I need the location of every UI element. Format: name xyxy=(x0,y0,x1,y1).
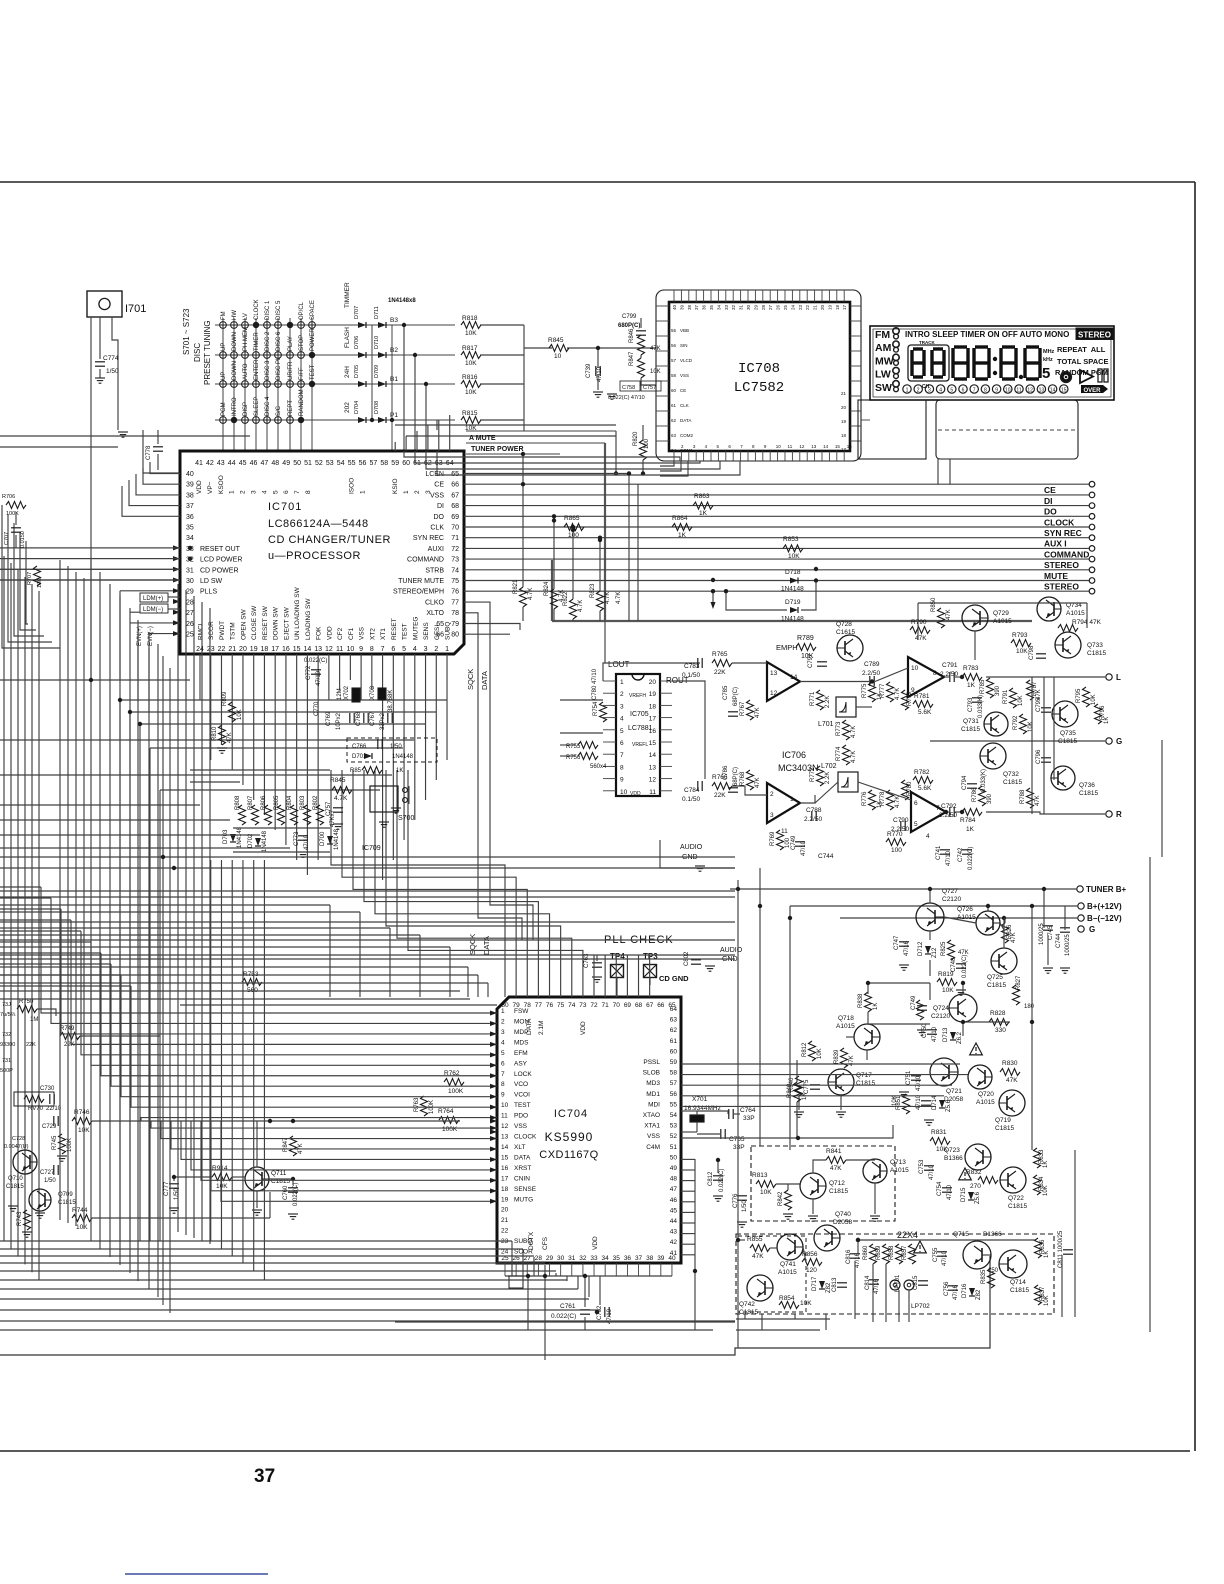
LCD display inner border xyxy=(873,329,1111,397)
svg-text:C727: C727 xyxy=(40,1170,55,1176)
svg-text:C780 47/10: C780 47/10 xyxy=(592,668,598,700)
switches row 4 xyxy=(220,417,227,424)
svg-text:R841: R841 xyxy=(826,1148,842,1155)
capacitor C799 symbol xyxy=(636,330,646,332)
svg-text:C1815: C1815 xyxy=(1058,738,1078,745)
svg-text:R773: R773 xyxy=(836,721,842,736)
svg-text:7u/5⅔: 7u/5⅔ xyxy=(0,1012,16,1018)
svg-text:10: 10 xyxy=(554,353,562,360)
svg-text:ISOO: ISOO xyxy=(349,478,356,494)
svg-text:C1815: C1815 xyxy=(58,1200,76,1206)
svg-text:Q717: Q717 xyxy=(856,1072,872,1079)
svg-text:D707: D707 xyxy=(354,306,360,319)
svg-text:R847: R847 xyxy=(283,1137,289,1152)
svg-text:58: 58 xyxy=(671,373,677,378)
resistor R767 47K vertical xyxy=(747,700,754,720)
svg-text:Q742: Q742 xyxy=(739,1301,755,1308)
svg-text:27: 27 xyxy=(186,610,194,617)
svg-text:42: 42 xyxy=(206,460,214,467)
resistor R779 4.7K vertical xyxy=(902,690,909,710)
svg-text:LV: LV xyxy=(243,313,249,320)
arrow down mid signal xyxy=(712,591,714,606)
terminal circle 5 xyxy=(1089,524,1095,530)
svg-text:B−(−12V): B−(−12V) xyxy=(1087,914,1122,923)
svg-text:DATA: DATA xyxy=(480,671,489,690)
svg-text:7: 7 xyxy=(620,752,624,759)
svg-text:VSS: VSS xyxy=(680,373,689,378)
svg-text:6: 6 xyxy=(914,800,918,807)
svg-text:PGM: PGM xyxy=(221,402,227,416)
svg-text:11: 11 xyxy=(649,789,656,796)
svg-text:10K: 10K xyxy=(760,1189,772,1196)
thick wire down from TUNER POWER xyxy=(604,443,606,621)
svg-text:DISC PL: DISC PL xyxy=(276,356,282,380)
ground mark near x123 xyxy=(118,431,128,433)
LCD play triangle xyxy=(1080,370,1093,383)
wire B- 12V xyxy=(840,917,1078,919)
wire from I701 pin2 down with step xyxy=(112,317,118,430)
svg-text:C707: C707 xyxy=(4,532,10,545)
svg-text:35: 35 xyxy=(186,525,194,532)
LCD connector left box xyxy=(858,400,926,459)
resistor R788 47K vertical xyxy=(1027,788,1034,808)
svg-text:2: 2 xyxy=(414,490,421,494)
svg-text:78: 78 xyxy=(451,610,459,617)
svg-text:47K: 47K xyxy=(650,346,661,352)
terminal B+ +12V xyxy=(1078,903,1084,909)
transistor Q725 C1815 xyxy=(991,948,1017,974)
svg-text:TUNER POWER: TUNER POWER xyxy=(471,446,524,453)
svg-text:36: 36 xyxy=(702,304,707,310)
transistor Q714 C1815 xyxy=(999,1250,1027,1278)
svg-text:16: 16 xyxy=(501,1165,509,1172)
zener D715 Z5.6 xyxy=(968,1192,974,1200)
zener D712 Z12 xyxy=(925,946,931,954)
svg-text:PRESET TUNING: PRESET TUNING xyxy=(203,320,212,385)
transistor Q736 C1815 xyxy=(1051,766,1075,790)
svg-text:10: 10 xyxy=(776,444,782,449)
svg-text:G: G xyxy=(1116,737,1122,746)
boxed label LDM(+) xyxy=(140,593,168,602)
svg-text:C728: C728 xyxy=(12,1136,25,1142)
switch matrix row wire 1 xyxy=(215,324,455,326)
svg-text:270: 270 xyxy=(970,1183,981,1190)
resistor R863 1K on DI line xyxy=(693,502,713,509)
wire A MUTE drop to LCEN xyxy=(615,431,617,474)
svg-text:C774: C774 xyxy=(103,355,119,362)
diode D710 xyxy=(378,352,386,358)
svg-text:500P: 500P xyxy=(0,1068,13,1074)
zener D717 ZB2 xyxy=(819,1281,825,1289)
svg-text:47/16: 47/16 xyxy=(953,1284,959,1300)
resistor R754 vertical left xyxy=(600,702,607,722)
svg-text:79: 79 xyxy=(451,621,459,628)
terminal B- -12V xyxy=(1078,915,1084,921)
svg-text:R859: R859 xyxy=(876,1245,882,1260)
svg-text:1N4148: 1N4148 xyxy=(334,828,340,850)
svg-text:25: 25 xyxy=(186,632,194,639)
svg-text:SCOR: SCOR xyxy=(208,621,215,640)
svg-text:VREFH: VREFH xyxy=(629,693,646,699)
svg-text:C741: C741 xyxy=(936,845,942,860)
svg-text:1/50: 1/50 xyxy=(174,1188,180,1200)
warning triangle power xyxy=(970,1043,983,1055)
LCD connector right box xyxy=(936,400,1078,459)
svg-text:57: 57 xyxy=(370,460,378,467)
resistor R764 100K xyxy=(439,1117,459,1124)
svg-text:SQCK: SQCK xyxy=(468,934,477,955)
svg-text:35: 35 xyxy=(709,304,714,310)
op IC701 microprocessor box xyxy=(180,451,464,654)
warning triangle mid xyxy=(959,1168,972,1180)
svg-text:I701: I701 xyxy=(125,303,146,315)
svg-text:LP702: LP702 xyxy=(911,1303,930,1310)
svg-text:38.768K: 38.768K xyxy=(388,690,394,712)
transistor Q727 C2120 xyxy=(916,903,944,931)
svg-text:39: 39 xyxy=(657,1255,665,1262)
svg-text:0.022(C): 0.022(C) xyxy=(551,1313,576,1320)
svg-text:54: 54 xyxy=(670,1112,678,1119)
svg-text:55: 55 xyxy=(348,460,356,467)
svg-text:C786: C786 xyxy=(723,765,729,780)
svg-text:C791: C791 xyxy=(942,662,958,669)
svg-text:33P: 33P xyxy=(733,1144,745,1151)
svg-text:TUNER B+: TUNER B+ xyxy=(1086,885,1127,894)
svg-text:19: 19 xyxy=(501,1196,509,1203)
svg-text:7: 7 xyxy=(294,490,301,494)
svg-text:STRB: STRB xyxy=(425,567,444,574)
svg-text:C2120: C2120 xyxy=(931,1013,951,1020)
svg-text:100K: 100K xyxy=(448,1088,464,1095)
svg-text:R776: R776 xyxy=(862,791,868,806)
resistor R815 10K xyxy=(461,417,481,424)
svg-text:CLKO: CLKO xyxy=(425,599,445,606)
svg-text:63: 63 xyxy=(670,1017,678,1024)
svg-text:61: 61 xyxy=(671,403,677,408)
svg-text:47K: 47K xyxy=(752,1253,764,1260)
terminal circle 9 xyxy=(1089,567,1095,573)
svg-text:C769: C769 xyxy=(326,711,332,726)
diode D700 1N4148 xyxy=(327,836,333,844)
svg-text:40: 40 xyxy=(668,1255,676,1262)
resistor R787 47K vertical xyxy=(1027,680,1034,700)
long vertical right rail x1162 xyxy=(1161,740,1163,857)
svg-text:F/FF: F/FF xyxy=(299,367,305,380)
svg-text:R763: R763 xyxy=(414,1097,420,1112)
svg-text:31: 31 xyxy=(186,567,194,574)
terminal circle 7 xyxy=(1089,546,1095,552)
svg-text:R828: R828 xyxy=(990,1010,1006,1017)
svg-text:73J: 73J xyxy=(2,1002,11,1008)
op IC708 outer pin frame xyxy=(656,290,861,461)
svg-text:RV70: RV70 xyxy=(28,1106,44,1112)
svg-text:R846: R846 xyxy=(629,328,635,343)
svg-text:RESET SW: RESET SW xyxy=(262,605,269,640)
svg-text:CLK: CLK xyxy=(680,403,689,408)
resistor R795 10K vertical xyxy=(1083,687,1090,707)
big dashed box bottom xyxy=(736,1234,1054,1314)
svg-text:C1815: C1815 xyxy=(1003,779,1023,786)
svg-text:DOWN: DOWN xyxy=(232,332,238,351)
svg-text:66: 66 xyxy=(451,482,459,489)
svg-text:CLOCK: CLOCK xyxy=(1044,517,1075,527)
op-amp IC706c xyxy=(767,783,800,823)
resistor R765 22K xyxy=(712,660,732,667)
switch matrix column wires xyxy=(222,318,224,451)
svg-text:5.6K: 5.6K xyxy=(918,785,932,792)
svg-text:STEREO/EMPH: STEREO/EMPH xyxy=(393,589,444,596)
svg-text:C745: C745 xyxy=(1048,925,1054,940)
svg-text:Q736: Q736 xyxy=(1079,782,1095,789)
svg-text:28: 28 xyxy=(761,304,766,310)
svg-text:TSTM: TSTM xyxy=(230,622,237,640)
svg-text:C778: C778 xyxy=(146,445,152,460)
svg-text:R775: R775 xyxy=(862,683,868,698)
vertical resistor R821 4.7K xyxy=(520,587,527,607)
svg-text:2: 2 xyxy=(917,388,920,394)
svg-text:57: 57 xyxy=(671,358,677,363)
svg-text:5: 5 xyxy=(272,490,279,494)
svg-text:GFSI: GFSI xyxy=(434,625,441,640)
svg-text:4.7K: 4.7K xyxy=(851,726,857,738)
svg-text:XRST: XRST xyxy=(514,1165,531,1172)
svg-text:1: 1 xyxy=(790,796,794,803)
svg-text:DOWN SW: DOWN SW xyxy=(273,606,280,640)
svg-text:R792: R792 xyxy=(1013,715,1019,730)
wire IC708 right to boxes xyxy=(861,419,870,421)
transistor Q712 C1815 xyxy=(800,1173,826,1199)
resistor R796 1K vertical xyxy=(1095,704,1102,724)
svg-text:27: 27 xyxy=(768,304,773,310)
resistor R838 1K vertical xyxy=(865,992,872,1012)
junction dots row 2 xyxy=(309,352,315,358)
inner dashed box Q741 Q742 xyxy=(738,1236,806,1312)
svg-text:CE: CE xyxy=(434,482,444,489)
svg-text:47/10: 47/10 xyxy=(316,670,322,686)
svg-text:390: 390 xyxy=(987,793,993,804)
LCD band indicator circles xyxy=(893,328,899,334)
resistor R746 10K xyxy=(72,1118,92,1125)
svg-text:R847: R847 xyxy=(629,351,635,366)
svg-text:FLASH: FLASH xyxy=(344,327,351,348)
svg-text:VLCD: VLCD xyxy=(680,358,693,363)
zener D716 ZB2 xyxy=(969,1288,975,1296)
resistor R813 10K xyxy=(756,1181,776,1188)
svg-text:C754: C754 xyxy=(937,1181,943,1196)
svg-text:38: 38 xyxy=(646,1255,654,1262)
svg-text:56: 56 xyxy=(670,1091,678,1098)
svg-text:12: 12 xyxy=(799,444,805,449)
svg-text:30: 30 xyxy=(186,578,194,585)
left area capacitor C707 xyxy=(11,527,21,529)
svg-text:D708: D708 xyxy=(374,401,380,414)
svg-text:R774: R774 xyxy=(836,746,842,761)
svg-text:D712: D712 xyxy=(918,941,924,956)
svg-text:VDD: VDD xyxy=(580,1021,587,1035)
resistor R793 10K xyxy=(1011,640,1031,647)
resistor R770 100 xyxy=(886,839,906,846)
svg-text:PWDT: PWDT xyxy=(219,621,226,640)
svg-text:29: 29 xyxy=(753,304,758,310)
svg-text:2: 2 xyxy=(501,1018,505,1025)
capacitor C765 33P xyxy=(720,1129,722,1139)
resistor R812 10K vertical xyxy=(809,1041,816,1061)
svg-text:R745: R745 xyxy=(52,1135,58,1150)
svg-text:C748: C748 xyxy=(951,957,957,972)
svg-text:PSSL: PSSL xyxy=(643,1059,660,1066)
svg-text:2: 2 xyxy=(770,791,774,798)
svg-text:50: 50 xyxy=(293,460,301,467)
resistor R753 560 xyxy=(242,979,262,986)
transistor Q717 C1815 xyxy=(828,1069,854,1095)
resistor R768 vertical xyxy=(747,770,754,790)
svg-text:R754: R754 xyxy=(593,701,599,716)
svg-text:20: 20 xyxy=(841,405,847,410)
svg-text:74: 74 xyxy=(451,567,459,574)
svg-text:R806: R806 xyxy=(261,795,267,810)
svg-text:72: 72 xyxy=(451,546,459,553)
svg-text:47/10: 47/10 xyxy=(916,1094,922,1110)
wire DATA bus into IC705 xyxy=(560,699,603,701)
wire to L output xyxy=(986,676,1105,678)
svg-text:R863: R863 xyxy=(694,493,710,500)
labels C758 C757 xyxy=(620,381,640,391)
svg-text:LC866124A—5448: LC866124A—5448 xyxy=(268,518,369,530)
svg-text:16: 16 xyxy=(847,444,853,449)
svg-text:RESET: RESET xyxy=(391,618,398,640)
svg-text:1N4148: 1N4148 xyxy=(392,754,414,760)
svg-text:Z5.6: Z5.6 xyxy=(975,1191,981,1204)
svg-text:MDS: MDS xyxy=(514,1039,529,1046)
svg-text:13: 13 xyxy=(649,764,657,771)
svg-text:IC705: IC705 xyxy=(630,711,649,718)
svg-text:SIN: SIN xyxy=(680,343,688,348)
resistor R836 1K vertical xyxy=(1035,1238,1042,1258)
svg-text:R803: R803 xyxy=(300,795,306,810)
svg-text:R784: R784 xyxy=(960,817,976,824)
left area resistor R707 10K xyxy=(34,566,41,586)
small box below IC704 xyxy=(509,1276,523,1288)
svg-text:R824: R824 xyxy=(544,581,550,596)
svg-text:68: 68 xyxy=(635,1002,643,1009)
resistor R745 100K vertical xyxy=(59,1134,66,1154)
svg-text:3: 3 xyxy=(424,646,428,653)
svg-text:11: 11 xyxy=(336,646,343,653)
svg-text:R857: R857 xyxy=(902,1245,908,1260)
svg-text:48: 48 xyxy=(670,1176,678,1183)
vertical rail x1062 xyxy=(1061,1255,1063,1317)
resistor R833 1K vertical xyxy=(1034,1148,1041,1168)
svg-text:TEST: TEST xyxy=(402,623,409,640)
transistor Q723 B1366 xyxy=(965,1144,991,1170)
resistor R851 10K vertical xyxy=(903,1094,910,1114)
svg-text:R818: R818 xyxy=(462,315,478,322)
svg-text:Z82: Z82 xyxy=(976,1289,982,1300)
terminal G xyxy=(1106,738,1112,744)
svg-text:R768: R768 xyxy=(740,771,746,786)
svg-text:47/10: 47/10 xyxy=(929,1164,935,1180)
svg-text:CLK: CLK xyxy=(430,525,444,532)
svg-text:62: 62 xyxy=(670,1027,678,1034)
svg-text:37: 37 xyxy=(186,503,194,510)
transistor Q720 A1015 xyxy=(968,1065,992,1089)
svg-text:1: 1 xyxy=(501,1008,505,1015)
svg-text:VSS: VSS xyxy=(359,626,366,640)
svg-text:R816: R816 xyxy=(462,374,478,381)
resistor R782 5.6K xyxy=(913,777,933,784)
svg-text:LW: LW xyxy=(875,369,891,381)
svg-text:CD POWER: CD POWER xyxy=(200,567,239,574)
svg-text:C1815: C1815 xyxy=(1079,790,1099,797)
svg-text:C770: C770 xyxy=(314,701,320,716)
svg-text:56: 56 xyxy=(671,343,677,348)
wires from diode rows down to IC701 top pins xyxy=(403,325,405,451)
svg-text:CE: CE xyxy=(1044,485,1056,495)
svg-text:24H: 24H xyxy=(344,366,351,378)
resistor R810 47K vertical xyxy=(219,725,226,745)
svg-text:PLLS: PLLS xyxy=(200,589,217,596)
svg-text:53: 53 xyxy=(670,1123,678,1130)
svg-text:RMCI: RMCI xyxy=(198,623,205,640)
resistor R790 47K xyxy=(910,627,930,634)
IC708 pin stubs left xyxy=(656,305,669,307)
svg-text:R764: R764 xyxy=(438,1108,454,1115)
svg-text:DISC 4: DISC 4 xyxy=(265,396,271,416)
resistor R826 47K vertical xyxy=(1002,923,1009,943)
svg-text:2.2/50: 2.2/50 xyxy=(862,670,880,677)
svg-text:CLOSE SW: CLOSE SW xyxy=(251,605,258,640)
svg-text:9: 9 xyxy=(501,1092,505,1099)
ground below C774 xyxy=(95,377,105,379)
svg-text:23: 23 xyxy=(501,1238,509,1245)
svg-text:Z5.6: Z5.6 xyxy=(946,1099,952,1112)
svg-text:62: 62 xyxy=(671,418,677,423)
resistor R769 100 vertical xyxy=(777,830,784,850)
resistor R819 10K xyxy=(937,979,957,986)
svg-text:Q733: Q733 xyxy=(1087,642,1103,649)
svg-text:23: 23 xyxy=(798,304,803,310)
svg-text:Q726: Q726 xyxy=(957,906,973,913)
resistor R791 10K vertical xyxy=(1010,688,1017,708)
svg-text:INTRO SLEEP TIMER ON OFF AUTO: INTRO SLEEP TIMER ON OFF AUTO MONO xyxy=(905,330,1069,339)
wires LCD connector to terminal lines xyxy=(937,459,939,484)
svg-text:SYN REC: SYN REC xyxy=(1044,528,1082,538)
vertical rail x790 xyxy=(789,906,791,1150)
svg-text:56: 56 xyxy=(359,460,367,467)
bottom rail horizontal y1322 xyxy=(395,1321,735,1323)
svg-text:R858: R858 xyxy=(889,1245,895,1260)
svg-text:77: 77 xyxy=(535,1002,543,1009)
resistors R755 R756 left leads xyxy=(578,742,598,749)
capacitor C774 on I701 wire xyxy=(95,361,105,363)
svg-text:59: 59 xyxy=(391,460,399,467)
capacitor C778 on left wire xyxy=(153,446,163,448)
svg-text:37: 37 xyxy=(635,1255,643,1262)
svg-text:R831: R831 xyxy=(931,1129,947,1136)
svg-text:D714: D714 xyxy=(932,1095,938,1110)
page frame top border xyxy=(0,181,1195,183)
svg-text:C816: C816 xyxy=(846,1249,852,1264)
svg-text:R817: R817 xyxy=(462,345,478,352)
right bus from pins 50-41 xyxy=(681,1158,695,1160)
svg-text:10K: 10K xyxy=(817,1048,823,1059)
svg-text:2.1M: 2.1M xyxy=(538,1021,545,1035)
svg-text:VREFL: VREFL xyxy=(632,742,648,748)
svg-text:X703: X703 xyxy=(370,685,376,700)
svg-text:C749: C749 xyxy=(791,835,797,850)
op-amp IC706a xyxy=(767,662,800,701)
transistor Q733 C1815 xyxy=(1055,632,1081,658)
